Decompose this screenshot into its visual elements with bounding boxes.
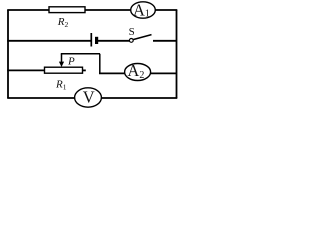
switch S pivot [129, 39, 133, 43]
wire right vertical [176, 10, 178, 98]
battery long plate [90, 33, 92, 47]
wire A2 to right [151, 72, 177, 74]
svg-text:P: P [67, 56, 75, 68]
slider arrowhead [59, 62, 64, 67]
ammeter A2 [125, 61, 151, 81]
switch blade [133, 35, 152, 40]
svg-text:V: V [83, 88, 95, 107]
wire tap to A2 [99, 72, 125, 74]
battery short plate [95, 37, 98, 44]
tap wire horizontal [61, 53, 100, 55]
wire bottom row [7, 97, 177, 99]
rheostat right stub [83, 69, 86, 71]
wire row2 left [7, 40, 91, 42]
slider stem [61, 54, 63, 63]
voltmeter V [75, 88, 102, 108]
wire left vertical [7, 10, 9, 98]
wire row3 left [7, 69, 46, 71]
wire battery to switch [98, 40, 129, 42]
wire switch to right [153, 40, 177, 42]
ammeter A1 [131, 0, 156, 19]
rheostat R1 [45, 67, 83, 73]
svg-text:S: S [129, 26, 135, 38]
wire top row [7, 9, 177, 11]
resistor R2 [49, 7, 85, 13]
tap wire vertical [99, 54, 101, 74]
